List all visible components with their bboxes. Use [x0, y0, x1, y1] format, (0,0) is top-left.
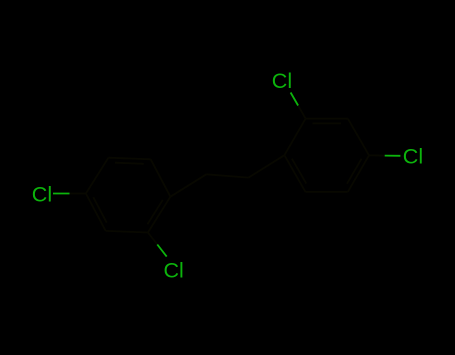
svg-text:Cl: Cl	[403, 144, 423, 168]
svg-text:Cl: Cl	[272, 69, 292, 93]
svg-text:Cl: Cl	[32, 183, 52, 207]
svg-text:Cl: Cl	[164, 258, 184, 282]
